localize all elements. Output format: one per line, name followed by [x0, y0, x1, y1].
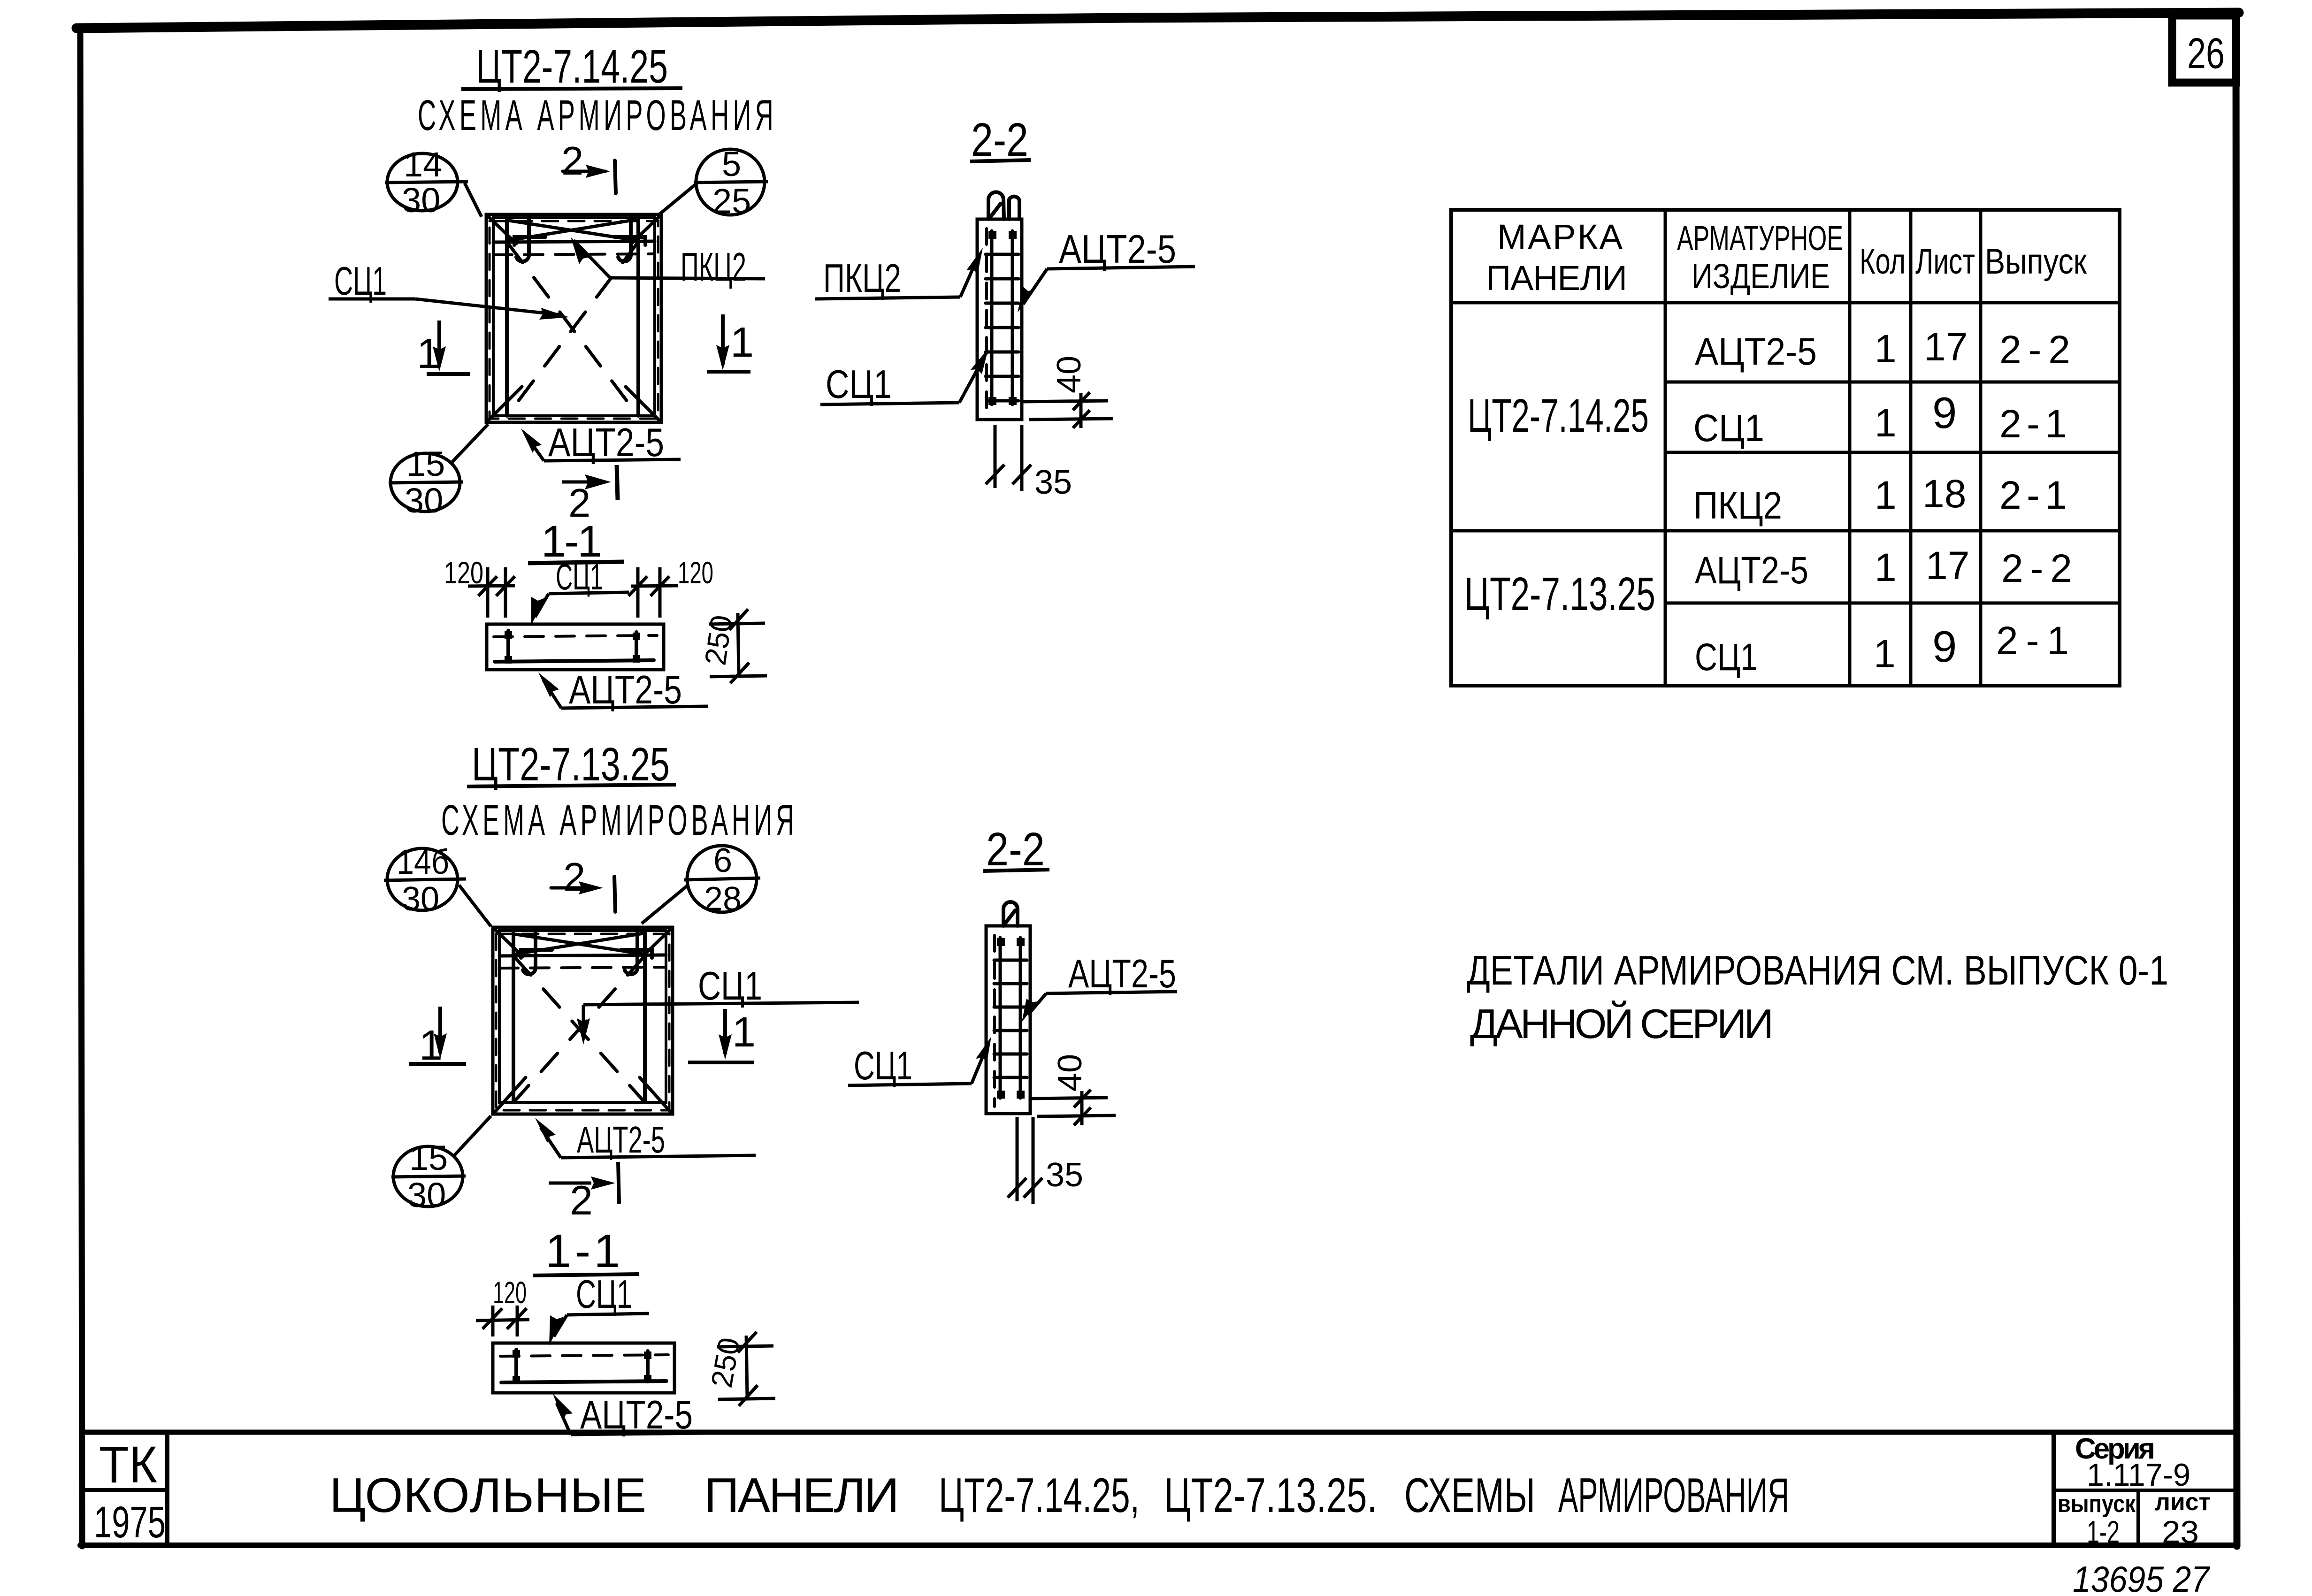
dimension 120 left upper : ticks: [468, 567, 515, 618]
svg-text:120: 120: [678, 555, 713, 590]
callout circle 15/30 drawing 2: [393, 1146, 463, 1207]
svg-text:9: 9: [1932, 388, 1957, 437]
drawing 2 section mark 1 right : base bar: [688, 1061, 754, 1064]
svg-text:АРМИРОВАНИЯ: АРМИРОВАНИЯ: [1558, 1468, 1789, 1523]
svg-text:СЦ1: СЦ1: [826, 362, 892, 407]
label СЦ1 leader arrow drawing 2: [582, 1005, 585, 1035]
panel 2 inner rectangle: [499, 931, 666, 1102]
title block TK cell divider vertical: [165, 1432, 169, 1545]
svg-text:30: 30: [402, 880, 439, 918]
frame right border: [2236, 13, 2237, 1546]
table vertical line col4/col5: [1979, 210, 1983, 686]
svg-text:ПАНЕЛИ: ПАНЕЛИ: [1486, 259, 1627, 298]
label ПКЦ2 underline leader: [574, 240, 765, 279]
panel 2 corner diagonal top-left: [494, 928, 523, 956]
dimension 40 upper : extension lines: [1022, 393, 1113, 428]
panel 2 corner diagonal bottom-right: [640, 1077, 671, 1112]
svg-text:СЦ1: СЦ1: [854, 1044, 912, 1088]
callout circle 6/28: [687, 846, 757, 912]
section 2-2 lower dashed face line: [993, 935, 996, 1107]
svg-text:ИЗДЕЛИЕ: ИЗДЕЛИЕ: [1692, 257, 1830, 296]
panel 1 corner diagonal bottom-left: [488, 387, 522, 420]
svg-text:14: 14: [404, 145, 442, 184]
svg-text:6: 6: [713, 842, 732, 879]
table row line 4: [1665, 602, 2120, 605]
drawing 2 section mark 1 left : arrow down: [438, 1007, 442, 1053]
svg-text:СЦ1: СЦ1: [576, 1272, 632, 1317]
section 1-1 lower title underline: [533, 1274, 639, 1275]
panel 2 corner diagonal bottom-left: [495, 1077, 526, 1112]
label СЦ1 leader arrow to panel centre: [415, 299, 561, 315]
section 1-1 lower bottom chord: [501, 1381, 666, 1382]
title block top line: [84, 1430, 2236, 1435]
panel 1 inner vertical bar right: [636, 218, 640, 416]
sheet number box 26: [2172, 15, 2236, 83]
drawing 2 section mark 1 left : base bar: [409, 1062, 466, 1066]
callout circle 5/25: [696, 149, 765, 215]
section 1-1 upper bottom chord: [495, 660, 654, 662]
svg-text:2-2: 2-2: [1999, 328, 2070, 372]
table row line 1: [1665, 381, 2120, 384]
drawing 1 title underline: [461, 88, 682, 89]
section 2-2 lower ladder rungs: [994, 960, 1027, 1077]
dimension 35 upper : projection lines: [995, 425, 1022, 491]
svg-text:ЦТ2-7.14.25: ЦТ2-7.14.25: [476, 40, 668, 93]
label АЦТ2-5 underline of 1-1 upper: [561, 706, 708, 708]
label СЦ1 underline: [820, 403, 959, 405]
panel 1 mesh end hook right: [614, 237, 645, 245]
label СЦ1 underline of 2-2 lower: [848, 1084, 972, 1085]
section 2-2 upper panel outline: [977, 219, 1022, 420]
svg-text:выпуск: выпуск: [2058, 1490, 2136, 1518]
label СЦ1 leader arrow: [959, 357, 984, 403]
svg-text:1975: 1975: [94, 1497, 166, 1547]
panel 1 lifting hook right: [618, 217, 631, 261]
drawing 2 section mark 2 top : line and tick: [551, 886, 594, 890]
svg-text:2: 2: [563, 855, 585, 900]
svg-text:35: 35: [1046, 1156, 1083, 1194]
label ПКЦ2 underline: [815, 297, 960, 299]
section 1-1 upper bar outline: [487, 624, 664, 670]
svg-text:ПКЦ2: ПКЦ2: [823, 256, 901, 301]
label АЦТ2-5 underline of 1-1 lower: [571, 1433, 746, 1435]
svg-text:1-2: 1-2: [2087, 1514, 2120, 1550]
svg-text:ПАНЕЛИ: ПАНЕЛИ: [704, 1468, 899, 1523]
panel 1 corner diagonal bottom-right: [626, 387, 659, 420]
svg-text:СЦ1: СЦ1: [1693, 407, 1764, 450]
svg-text:2-1: 2-1: [1999, 402, 2067, 446]
panel 1 top band bottom chord: [493, 241, 655, 242]
svg-text:30: 30: [402, 181, 440, 220]
svg-text:ЦТ2-7.13.25.: ЦТ2-7.13.25.: [1164, 1468, 1377, 1523]
svg-text:лист: лист: [2155, 1489, 2211, 1516]
svg-text:АРМАТУРНОЕ: АРМАТУРНОЕ: [1677, 219, 1843, 258]
svg-text:13695 27: 13695 27: [2073, 1558, 2210, 1596]
svg-text:ПКЦ2: ПКЦ2: [681, 245, 746, 290]
panel 1 inner rectangle: [493, 218, 655, 416]
callout 15/30 leader: [452, 424, 488, 463]
section mark 1 right : arrow down: [721, 314, 725, 365]
svg-text:ЦТ2-7.14.25: ЦТ2-7.14.25: [1468, 389, 1649, 442]
label АЦТ2-5 leader of 1-1 upper: [544, 680, 561, 708]
dimension 35 lower : slash ticks: [1008, 1178, 1042, 1198]
label АЦТ2-5 leader arrow drawing 2: [541, 1128, 561, 1158]
section 2-2 lower lifting loop: [1003, 902, 1018, 926]
section 1-1 lower end stirrup right: [646, 1351, 650, 1382]
svg-text:40: 40: [1050, 356, 1088, 393]
panel 1 dashed diagonal X: [508, 243, 637, 415]
svg-text:ТК: ТК: [99, 1436, 157, 1494]
dimension 120 left lower : ticks: [476, 1306, 529, 1336]
panel 2 top band bottom chord: [499, 955, 666, 956]
svg-text:17: 17: [1924, 325, 1967, 369]
callout circle 14б/30: [387, 848, 458, 910]
panel 1 lifting hook left: [516, 217, 529, 261]
label СЦ1 underline: [329, 298, 415, 301]
callout 5/25 fraction bar: [694, 182, 768, 183]
svg-text:5: 5: [722, 145, 741, 183]
label АЦТ2-5 leader of 2-2 lower: [1028, 993, 1046, 1015]
svg-text:АЦТ2-5: АЦТ2-5: [1695, 330, 1817, 373]
svg-text:1: 1: [730, 319, 754, 366]
svg-text:2: 2: [561, 139, 583, 183]
svg-text:ЦТ2-7.14.25,: ЦТ2-7.14.25,: [939, 1468, 1140, 1523]
section mark 2 bottom : line and tick: [562, 481, 601, 484]
drawing 2 section mark 2 bottom : line and tick: [549, 1182, 591, 1185]
panel 1 corner diagonal top-right: [631, 215, 660, 244]
panel 1 outer rectangle: [486, 214, 661, 422]
dimension 35 upper : slash ticks: [986, 465, 1031, 484]
panel 2 dashed contour: [496, 934, 669, 1110]
panel 1 corner diagonal top-left: [487, 215, 516, 244]
panel 2 top band dashed chord: [499, 967, 666, 968]
dimension 40 upper : slash ticks: [1073, 392, 1090, 428]
panel 1 dashed contour: [490, 221, 658, 419]
svg-text:120: 120: [493, 1275, 527, 1310]
section 2-2 lower ladder left chord: [999, 938, 1002, 1098]
svg-text:ДАННОЙ СЕРИИ: ДАННОЙ СЕРИИ: [1470, 1000, 1774, 1047]
callout circle 15/30: [390, 453, 460, 512]
label СЦ1 underline drawing 2: [583, 1002, 859, 1005]
svg-text:15: 15: [406, 444, 445, 483]
label АЦТ2-5 leader arrow: [527, 436, 544, 461]
svg-text:СХЕМА АРМИРОВАНИЯ: СХЕМА АРМИРОВАНИЯ: [418, 92, 777, 139]
dimension 40 lower : slash ticks: [1074, 1090, 1091, 1125]
table outer box: [1451, 210, 2120, 686]
callout 15/30 leader drawing 2: [454, 1116, 491, 1155]
section 1-1 lower end stirrup left: [514, 1350, 518, 1382]
section 2-2 lower panel outline: [986, 926, 1030, 1114]
section 1-1 upper bar dots: [505, 631, 640, 664]
panel 2 top band cross lines: [516, 933, 643, 954]
svg-text:Лист: Лист: [1915, 242, 1975, 282]
section 1-1 lower bar dots: [513, 1350, 651, 1383]
svg-text:17: 17: [1926, 543, 1969, 588]
callout 6/28 leader: [642, 885, 688, 924]
svg-text:2-1: 2-1: [1999, 473, 2067, 517]
callout 14/30 leader: [465, 183, 482, 217]
section 1-1 lower dashed top chord: [500, 1355, 668, 1356]
table group separator line: [1451, 529, 2120, 533]
section mark 2 top : arrowhead: [586, 165, 610, 178]
section 2-2 upper ladder right chord: [1011, 231, 1014, 405]
dimension 250 upper : line and ticks: [709, 609, 767, 683]
drawing 2 section mark 2 bottom : arrowhead: [591, 1176, 615, 1190]
callout 6/28 fraction bar: [684, 878, 760, 880]
label СЦ1 leader of 1-1 upper: [535, 594, 549, 617]
svg-text:2-2: 2-2: [986, 823, 1045, 876]
svg-text:23: 23: [2162, 1514, 2199, 1550]
frame left border: [80, 27, 82, 1546]
panel 1 inner vertical bar left: [505, 218, 509, 416]
panel 1 top band cross lines: [509, 220, 636, 240]
frame bottom border: [80, 1543, 2237, 1548]
section 1-1 lower bar outline: [493, 1343, 674, 1393]
section 1-1 upper title underline: [528, 562, 624, 563]
section 2-2 lower ladder right chord: [1019, 938, 1022, 1098]
section 1-1 upper end stirrup right: [635, 632, 638, 661]
svg-text:1.117-9: 1.117-9: [2087, 1457, 2190, 1493]
callout 15/30 fraction bar: [389, 482, 463, 483]
table vertical line col3/col4: [1909, 210, 1913, 686]
table row line 2: [1665, 451, 2120, 454]
svg-text:250: 250: [698, 613, 739, 667]
callout 14б/30 leader: [459, 885, 491, 926]
panel 2 inner vertical bar right: [643, 931, 647, 1102]
callout 14/30 fraction bar: [385, 182, 468, 183]
table vertical line col1/col2: [1664, 210, 1667, 686]
dimension 40 lower : extension lines: [1030, 1091, 1116, 1125]
svg-text:ЦТ2-7.13.25: ЦТ2-7.13.25: [472, 738, 670, 791]
svg-text:2-1: 2-1: [1996, 619, 2069, 663]
svg-text:2: 2: [570, 1177, 593, 1223]
label СЦ1 underline of 1-1 upper: [549, 592, 629, 594]
svg-text:2-2: 2-2: [971, 114, 1028, 166]
panel 2 mesh end hook right: [621, 950, 652, 958]
svg-text:МАРКА: МАРКА: [1497, 217, 1623, 256]
section 2-2 upper ladder rungs: [986, 254, 1018, 401]
panel 1 mesh end hook left: [514, 237, 545, 245]
svg-text:35: 35: [1034, 464, 1072, 501]
svg-text:18: 18: [1922, 472, 1966, 516]
svg-text:АЦТ2-5: АЦТ2-5: [577, 1119, 665, 1161]
section mark 2 bottom : arrowhead: [585, 474, 611, 489]
section 1-1 upper dashed top chord: [494, 635, 657, 637]
panel 2 dashed diagonal X: [514, 957, 644, 1101]
svg-text:АЦТ2-5: АЦТ2-5: [1059, 227, 1176, 272]
svg-text:30: 30: [405, 481, 443, 520]
panel 2 mesh end hook left: [521, 950, 552, 958]
section 2-2 lower title underline: [983, 870, 1049, 871]
svg-text:СЦ1: СЦ1: [334, 259, 387, 304]
table header bottom line: [1451, 301, 2120, 305]
label СЦ1 leader of 2-2 lower: [972, 1045, 988, 1084]
svg-text:1: 1: [1874, 632, 1896, 676]
dimension 35 lower : projection lines: [1017, 1117, 1033, 1204]
section 2-2 upper lifting loop: [988, 192, 1019, 219]
svg-text:25: 25: [712, 182, 751, 221]
svg-text:ЦТ2-7.13.25: ЦТ2-7.13.25: [1464, 568, 1655, 620]
svg-text:ЦОКОЛЬНЫЕ: ЦОКОЛЬНЫЕ: [329, 1468, 646, 1523]
svg-text:АЦТ2-5: АЦТ2-5: [1695, 549, 1808, 592]
drawing 2 section mark 2 top : arrowhead: [579, 881, 603, 894]
svg-text:1: 1: [1875, 401, 1897, 445]
section 2-2 upper bar dots: [988, 231, 1017, 405]
panel 2 outer rectangle: [493, 927, 673, 1114]
panel 2 lifting hook left: [523, 930, 536, 974]
frame top border: [77, 13, 2239, 28]
drawing 2 title underline: [467, 785, 676, 787]
svg-text:Кол: Кол: [1860, 242, 1906, 282]
dimension 250 lower : line and ticks: [717, 1332, 775, 1406]
svg-text:2-2: 2-2: [2001, 546, 2072, 590]
section 2-2 upper ladder left chord: [990, 231, 994, 405]
table vertical line col2/col3: [1848, 210, 1852, 686]
section 2-2 upper dashed face line: [985, 229, 988, 413]
label СЦ1 leader of 1-1 lower: [554, 1315, 567, 1336]
label АЦТ2-5 underline drawing 2: [561, 1155, 756, 1158]
svg-text:ПКЦ2: ПКЦ2: [1693, 484, 1782, 527]
dimension 120 right upper : ticks: [628, 567, 678, 618]
svg-text:АЦТ2-5: АЦТ2-5: [1068, 952, 1176, 996]
label АЦТ2-5 leader arrow: [1023, 269, 1047, 304]
title block right section vertical: [2052, 1432, 2056, 1545]
label АЦТ2-5 underline: [1047, 267, 1195, 269]
svg-text:1: 1: [1875, 545, 1897, 589]
callout 5/25 leader: [658, 184, 696, 215]
label ПКЦ2 leader arrow: [960, 256, 979, 297]
panel 2 corner diagonal top-right: [643, 928, 672, 956]
svg-text:26: 26: [2187, 30, 2225, 77]
callout 15/30 fraction bar drawing 2: [391, 1176, 466, 1177]
drawing 2 section mark 1 right : arrow down: [723, 1009, 727, 1054]
svg-text:40: 40: [1051, 1054, 1089, 1092]
section 1-1 upper end stirrup left: [506, 631, 510, 662]
svg-text:1: 1: [732, 1009, 756, 1056]
svg-text:ДЕТАЛИ АРМИРОВАНИЯ СМ. ВЫПУСК: ДЕТАЛИ АРМИРОВАНИЯ СМ. ВЫПУСК 0-1: [1467, 947, 2168, 993]
title block TK/1975 divider: [85, 1488, 167, 1492]
svg-text:СХЕМА АРМИРОВАНИЯ: СХЕМА АРМИРОВАНИЯ: [441, 796, 798, 844]
svg-text:15: 15: [409, 1138, 448, 1177]
section mark 2 top : line and tick: [563, 170, 605, 173]
panel 2 lifting hook right: [625, 930, 637, 974]
label СЦ1 underline of 1-1 lower: [567, 1313, 649, 1315]
svg-text:СЦ1: СЦ1: [1695, 636, 1758, 679]
section 2-2 lower bar dots: [997, 938, 1025, 1099]
section mark 1 left : base bar: [427, 372, 470, 376]
title block Серия cell bottom: [2054, 1489, 2236, 1492]
svg-text:28: 28: [704, 880, 742, 918]
panel 2 inner vertical bar left: [512, 931, 515, 1102]
label АЦТ2-5 underline: [544, 459, 681, 461]
section mark 1 left : arrow down: [437, 321, 441, 366]
svg-text:30: 30: [407, 1176, 446, 1214]
title block Выпуск/Лист divider: [2136, 1490, 2140, 1545]
svg-text:1: 1: [1875, 327, 1897, 371]
section mark 1 right : base bar: [707, 370, 750, 374]
svg-text:9: 9: [1932, 622, 1957, 671]
callout 14б/30 fraction bar: [384, 879, 466, 880]
label АЦТ2-5 leader of 1-1 lower: [557, 1403, 571, 1435]
svg-text:1-1: 1-1: [545, 1225, 620, 1277]
section 2-2 upper title underline: [970, 160, 1031, 161]
svg-text:1: 1: [1875, 473, 1897, 517]
svg-text:СХЕМЫ: СХЕМЫ: [1404, 1468, 1535, 1523]
svg-text:Выпуск: Выпуск: [1985, 242, 2087, 282]
panel 1 top band dashed chord: [493, 254, 655, 255]
label АЦТ2-5 underline of 2-2 lower: [1046, 992, 1177, 993]
callout circle 14/30: [387, 153, 458, 211]
svg-text:14б: 14б: [397, 842, 449, 881]
